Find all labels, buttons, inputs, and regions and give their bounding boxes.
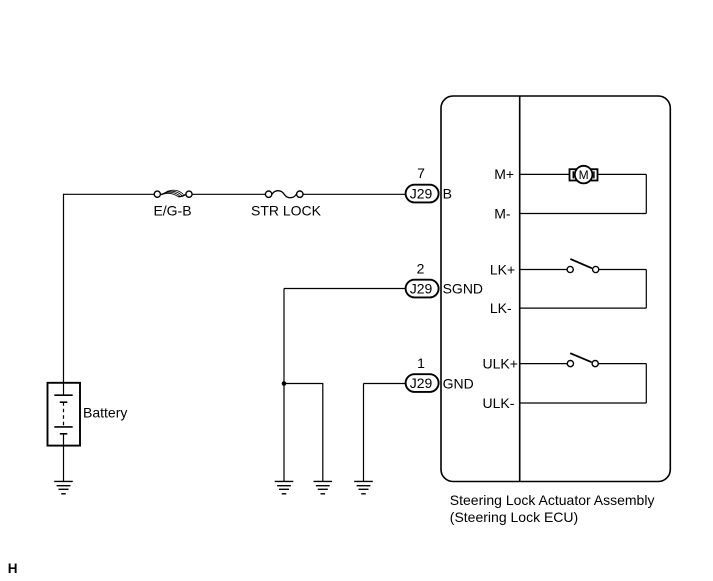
ground (SGND) bbox=[275, 481, 294, 493]
svg-text:M-: M- bbox=[494, 205, 511, 221]
svg-text:M+: M+ bbox=[494, 166, 514, 182]
wire GND bbox=[364, 384, 407, 482]
svg-text:(Steering Lock ECU): (Steering Lock ECU) bbox=[450, 509, 578, 525]
svg-text:ULK+: ULK+ bbox=[483, 355, 518, 371]
divider line bbox=[519, 96, 521, 482]
motor M1 bbox=[570, 166, 598, 184]
svg-text:Steering Lock Actuator Assembl: Steering Lock Actuator Assembly bbox=[450, 492, 655, 508]
wire bbox=[63, 434, 65, 482]
wire M loop bbox=[520, 174, 647, 213]
battery B1 bbox=[48, 383, 81, 446]
svg-text:SGND: SGND bbox=[443, 281, 483, 297]
wire SGND horizontal bbox=[284, 288, 406, 290]
svg-text:B: B bbox=[443, 186, 452, 202]
connector J29 pin 1 bbox=[406, 374, 439, 392]
ground (GND) bbox=[354, 481, 373, 493]
svg-text:Battery: Battery bbox=[83, 404, 127, 420]
svg-text:ULK-: ULK- bbox=[483, 395, 515, 411]
wire LK loop bbox=[520, 270, 647, 309]
svg-text:GND: GND bbox=[443, 375, 474, 391]
node junction bbox=[282, 381, 287, 386]
ground (battery) bbox=[54, 481, 73, 493]
svg-text:H: H bbox=[8, 561, 18, 576]
svg-text:STR LOCK: STR LOCK bbox=[251, 202, 322, 218]
svg-text:J29: J29 bbox=[410, 375, 433, 391]
wire ULK+ bbox=[520, 363, 647, 365]
svg-text:2: 2 bbox=[417, 260, 425, 276]
wire bbox=[303, 193, 406, 195]
connector J29 pin 2 bbox=[406, 280, 439, 298]
connector J29 pin 7 bbox=[406, 185, 439, 203]
wire LK+ bbox=[520, 269, 647, 271]
wire branch bbox=[284, 384, 323, 482]
ground (branch) bbox=[314, 481, 333, 493]
wire SGND vertical bbox=[283, 289, 285, 482]
svg-text:7: 7 bbox=[417, 165, 425, 181]
svg-text:M: M bbox=[579, 168, 589, 182]
svg-text:J29: J29 bbox=[410, 281, 433, 297]
ECU box Steering Lock Actuator Assembly bbox=[441, 96, 670, 482]
fuse STR LOCK bbox=[265, 191, 303, 198]
wire bbox=[192, 193, 265, 195]
fusible link E/G-B bbox=[154, 190, 192, 197]
svg-text:LK+: LK+ bbox=[490, 261, 515, 277]
wire bbox=[64, 193, 155, 195]
wire M+ bbox=[520, 173, 647, 175]
wire bbox=[63, 194, 65, 383]
wire ULK loop bbox=[520, 364, 647, 403]
switch LK bbox=[567, 259, 599, 273]
svg-text:E/G-B: E/G-B bbox=[153, 202, 191, 218]
switch ULK bbox=[567, 353, 598, 367]
svg-text:J29: J29 bbox=[410, 186, 433, 202]
svg-text:LK-: LK- bbox=[490, 300, 512, 316]
svg-text:1: 1 bbox=[417, 355, 425, 371]
